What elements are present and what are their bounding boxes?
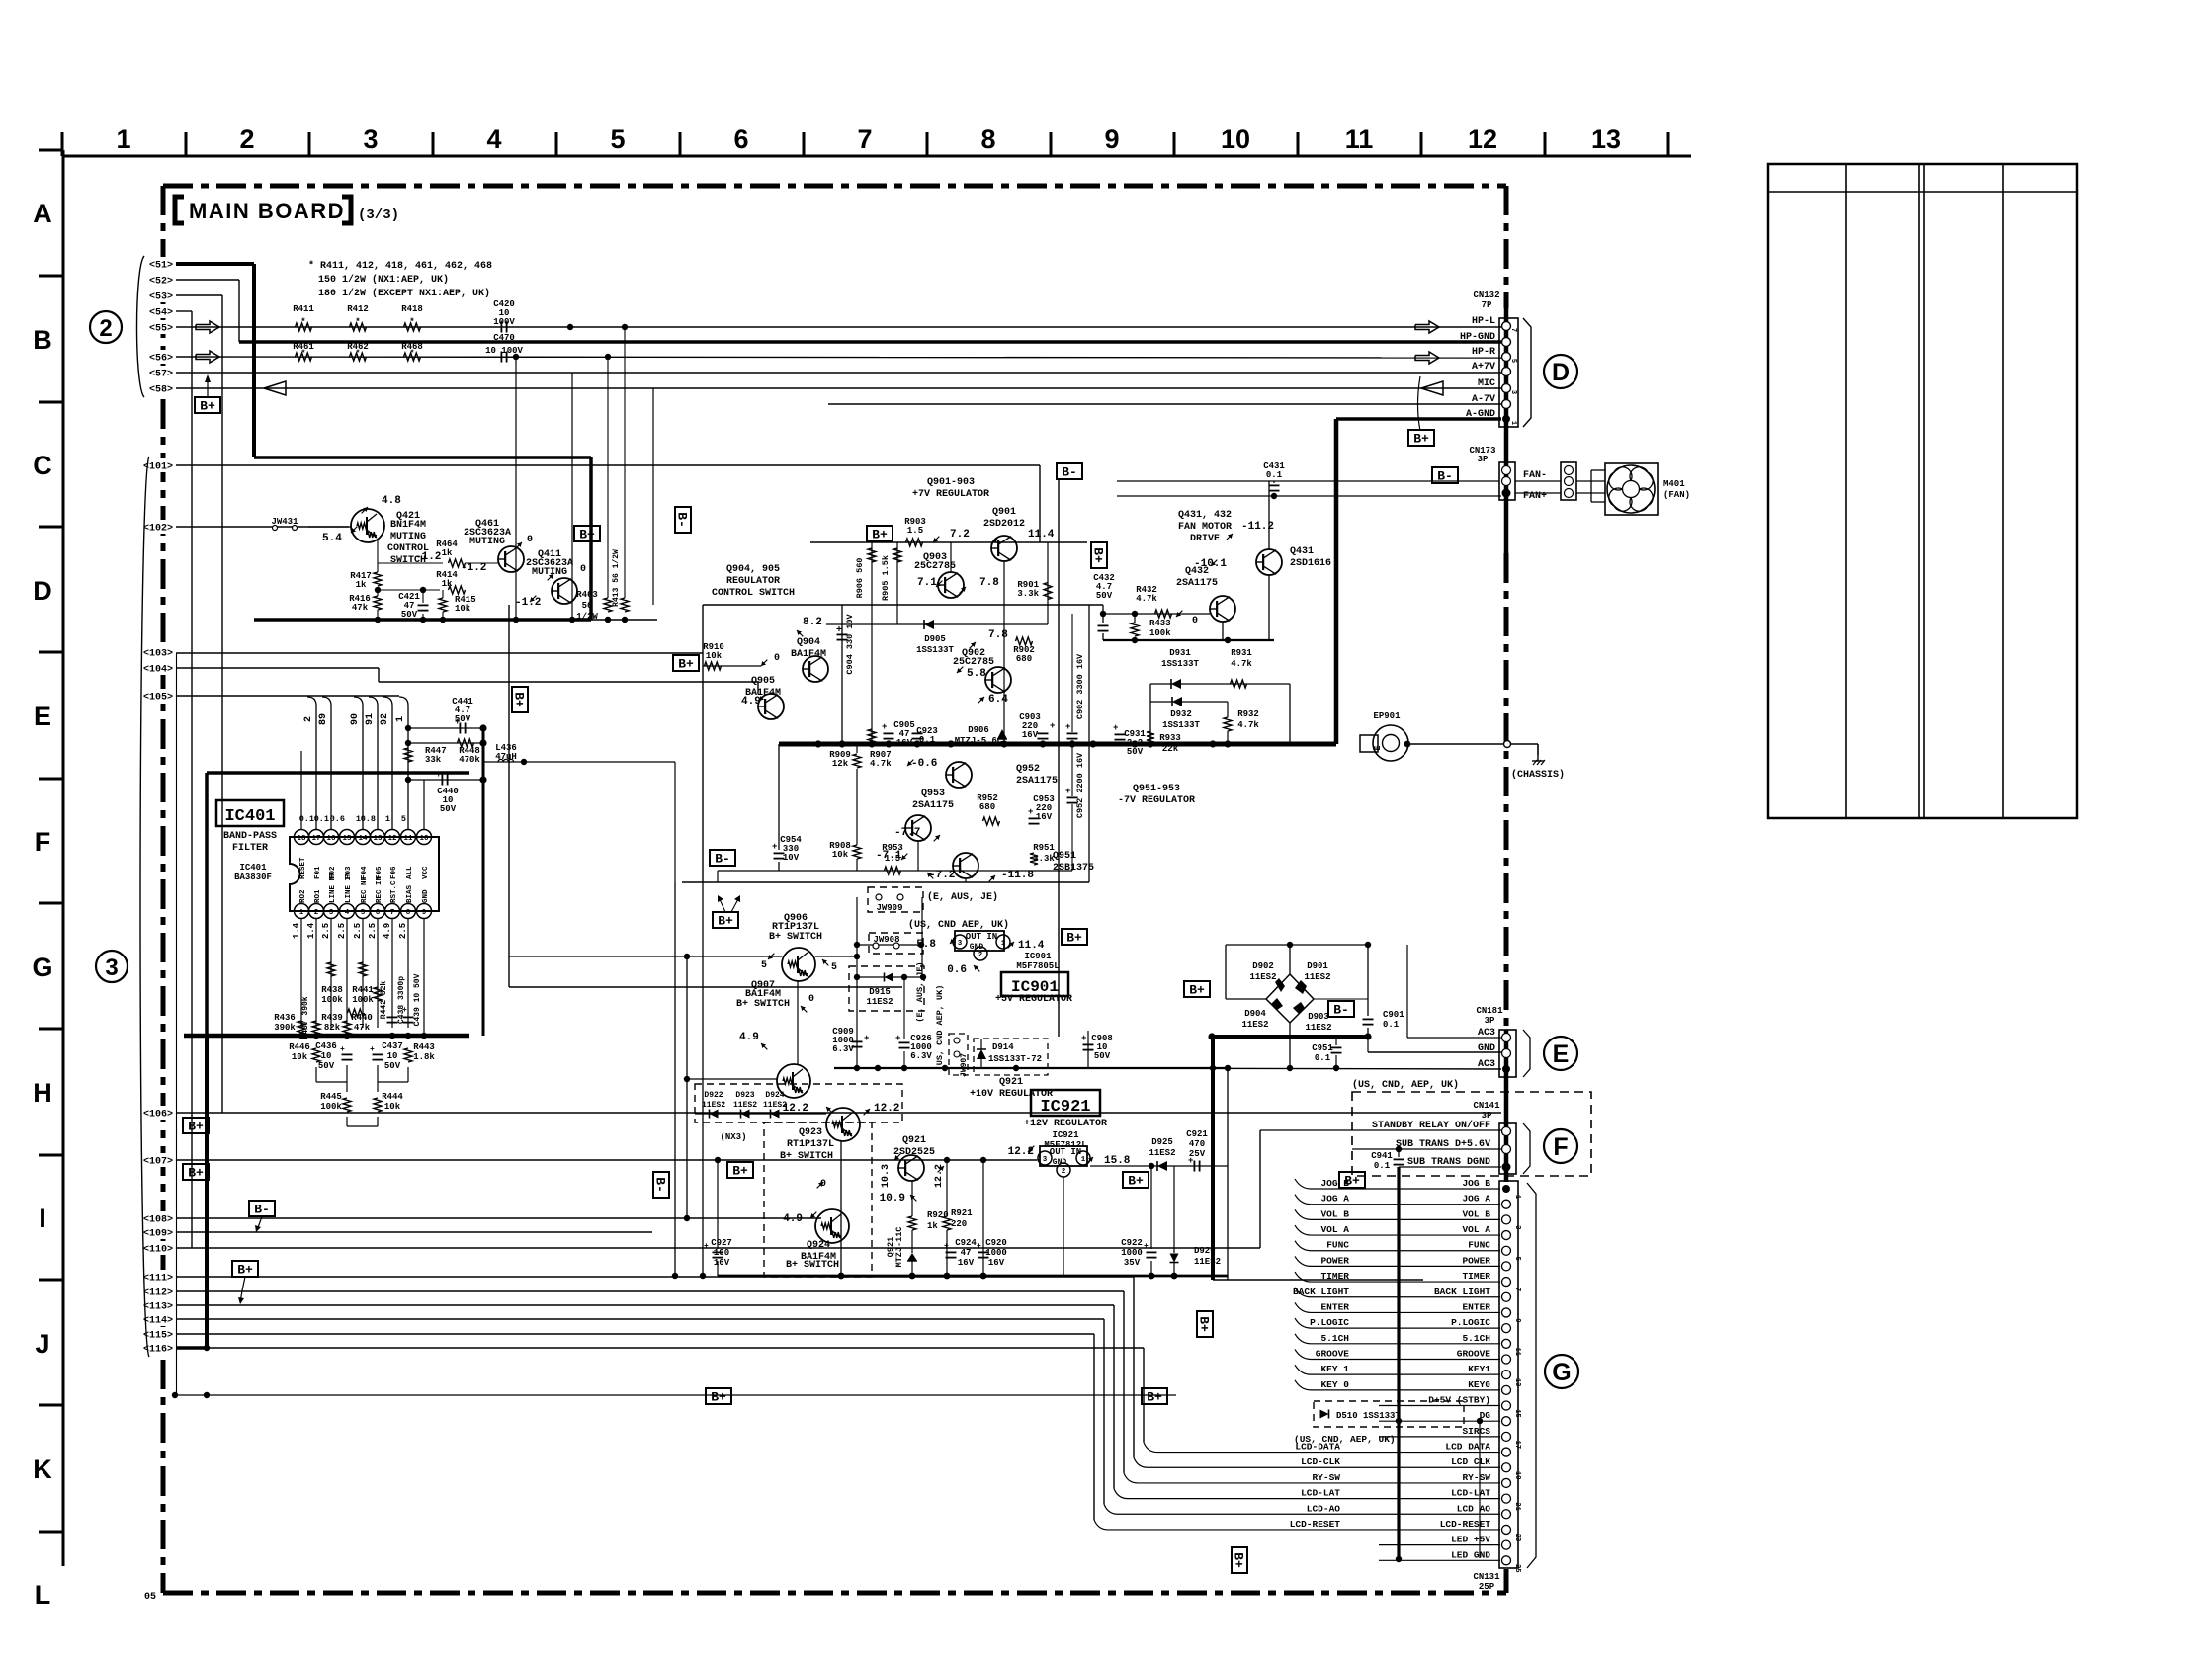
svg-text:50V: 50V — [1127, 747, 1144, 757]
svg-text:B+: B+ — [732, 1164, 748, 1179]
svg-text:D: D — [1552, 359, 1570, 386]
svg-text:IC401: IC401 — [224, 807, 275, 826]
svg-text:25: 25 — [1513, 1564, 1521, 1572]
svg-text:B+: B+ — [512, 692, 527, 707]
svg-text:+: + — [772, 842, 777, 852]
svg-text:LCD-RESET: LCD-RESET — [1290, 1519, 1341, 1530]
svg-text:AC3: AC3 — [1478, 1059, 1495, 1070]
svg-text:+: + — [1065, 787, 1070, 796]
svg-text:4.9: 4.9 — [739, 1032, 759, 1043]
svg-text:B+: B+ — [188, 1166, 204, 1181]
svg-text:B+: B+ — [678, 657, 694, 672]
svg-text:100k: 100k — [352, 995, 374, 1005]
svg-text:C920: C920 — [985, 1238, 1007, 1248]
svg-text:+: + — [1188, 1156, 1193, 1166]
svg-text:56: 56 — [582, 601, 593, 611]
svg-text:LCD-CLK: LCD-CLK — [1301, 1456, 1340, 1467]
svg-text:B+: B+ — [718, 914, 733, 929]
svg-text:6: 6 — [376, 909, 381, 917]
svg-text:<115>: <115> — [143, 1331, 173, 1342]
svg-text:0.1: 0.1 — [314, 814, 329, 824]
svg-text:(FAN): (FAN) — [1663, 490, 1690, 500]
svg-text:LCD AO: LCD AO — [1457, 1503, 1491, 1514]
svg-text:2.5: 2.5 — [368, 923, 378, 939]
svg-text:R921: R921 — [951, 1208, 973, 1218]
svg-text:FAN MOTOR: FAN MOTOR — [1178, 522, 1232, 533]
svg-text:16V: 16V — [1022, 730, 1039, 740]
svg-text:2SA1175: 2SA1175 — [912, 800, 954, 811]
svg-text:10.3: 10.3 — [881, 1164, 892, 1188]
svg-text:12: 12 — [387, 835, 397, 843]
svg-text:89: 89 — [318, 713, 329, 725]
svg-text:B: B — [33, 325, 52, 355]
svg-text:CONTROL SWITCH: CONTROL SWITCH — [712, 588, 795, 599]
svg-text:3: 3 — [1043, 1156, 1048, 1164]
svg-text:11ES2: 11ES2 — [1249, 972, 1276, 982]
svg-text:<55>: <55> — [149, 324, 173, 335]
svg-text:(E, AUS, JE): (E, AUS, JE) — [915, 961, 925, 1022]
svg-text:KEY0: KEY0 — [1468, 1379, 1490, 1390]
svg-text:R438: R438 — [321, 985, 343, 995]
svg-text:Q901: Q901 — [992, 507, 1016, 518]
svg-text:0.1: 0.1 — [1266, 470, 1283, 480]
svg-text:B+: B+ — [872, 528, 888, 542]
svg-text:G: G — [32, 953, 52, 982]
svg-text:SIRCS: SIRCS — [1462, 1426, 1490, 1437]
svg-text:HP-L: HP-L — [1472, 316, 1495, 327]
svg-text:0.6: 0.6 — [330, 814, 345, 824]
svg-text:D902: D902 — [1252, 961, 1274, 971]
svg-text:11.4: 11.4 — [1018, 940, 1045, 952]
svg-text:-0.6: -0.6 — [911, 758, 937, 770]
svg-text:<108>: <108> — [143, 1215, 173, 1226]
svg-text:D: D — [33, 576, 52, 606]
svg-text:C437: C437 — [382, 1041, 403, 1051]
svg-text:50V: 50V — [384, 1061, 401, 1071]
svg-text:JOG A: JOG A — [1462, 1194, 1490, 1205]
svg-text:+: + — [1050, 721, 1055, 731]
svg-text:4.7k: 4.7k — [1231, 659, 1252, 669]
svg-text:LED GND: LED GND — [1451, 1549, 1490, 1560]
svg-text:P.LOGIC: P.LOGIC — [1310, 1317, 1349, 1328]
svg-text:Q921: Q921 — [999, 1077, 1023, 1088]
svg-text:10: 10 — [387, 1051, 398, 1061]
svg-text:4.7k: 4.7k — [1136, 594, 1157, 604]
svg-text:FUNC: FUNC — [1468, 1240, 1490, 1251]
svg-text:50V: 50V — [318, 1061, 335, 1071]
svg-text:LINE NF: LINE NF — [329, 872, 337, 903]
svg-text:+: + — [977, 1242, 981, 1251]
svg-text:+: + — [882, 722, 887, 732]
svg-text:B+: B+ — [579, 528, 595, 542]
svg-text:1: 1 — [1081, 1156, 1086, 1164]
svg-text:1: 1 — [1001, 940, 1006, 948]
svg-text:F06: F06 — [390, 866, 398, 879]
svg-text:<113>: <113> — [143, 1302, 173, 1313]
svg-text:DRIVE: DRIVE — [1190, 534, 1220, 544]
svg-text:90: 90 — [350, 713, 361, 725]
svg-text:9: 9 — [1513, 1318, 1521, 1322]
svg-text:7.2: 7.2 — [950, 529, 970, 540]
svg-text:R418: R418 — [401, 304, 423, 314]
svg-text:LCD-RESET: LCD-RESET — [1440, 1519, 1491, 1530]
svg-text:JW908: JW908 — [873, 935, 899, 945]
svg-text:<51>: <51> — [149, 261, 173, 272]
svg-text:4.8: 4.8 — [382, 495, 401, 507]
svg-text:Q953: Q953 — [921, 789, 945, 799]
svg-text:JOG B: JOG B — [1462, 1178, 1490, 1189]
svg-text:C924: C924 — [955, 1238, 977, 1248]
svg-text:BAND-PASS: BAND-PASS — [223, 831, 277, 842]
svg-text:-7V REGULATOR: -7V REGULATOR — [1118, 795, 1195, 806]
svg-text:2: 2 — [99, 315, 112, 342]
svg-text:VOL B: VOL B — [1320, 1208, 1349, 1219]
svg-text:MTZJ-11C: MTZJ-11C — [894, 1227, 904, 1268]
svg-text:GROOVE: GROOVE — [1316, 1348, 1350, 1359]
svg-text:11: 11 — [1345, 125, 1374, 154]
svg-text:3: 3 — [958, 940, 963, 948]
svg-text:E: E — [1553, 1040, 1570, 1068]
svg-text:16V: 16V — [714, 1258, 730, 1268]
svg-text:<105>: <105> — [143, 693, 173, 704]
svg-text:1: 1 — [395, 716, 406, 722]
svg-text:BA1F4M: BA1F4M — [791, 649, 826, 660]
svg-text:2.5: 2.5 — [321, 923, 331, 939]
svg-text:R446: R446 — [289, 1042, 310, 1052]
svg-text:BACK LIGHT: BACK LIGHT — [1293, 1287, 1349, 1297]
svg-text:180 1/2W (EXCEPT NX1:AEP, UK): 180 1/2W (EXCEPT NX1:AEP, UK) — [318, 288, 490, 299]
svg-text:1.4: 1.4 — [292, 922, 301, 939]
svg-text:VOL B: VOL B — [1462, 1208, 1490, 1219]
svg-text:CN181: CN181 — [1476, 1006, 1503, 1016]
svg-text:<111>: <111> — [143, 1274, 173, 1285]
svg-text:Q431, 432: Q431, 432 — [1178, 510, 1232, 521]
svg-text:35V: 35V — [1124, 1258, 1141, 1268]
svg-text:47k: 47k — [352, 603, 369, 613]
svg-text:D923: D923 — [735, 1091, 754, 1100]
svg-text:B-: B- — [653, 1177, 668, 1193]
svg-text:GND: GND — [422, 889, 430, 903]
svg-text:CN132: CN132 — [1473, 291, 1499, 300]
svg-text:5.8: 5.8 — [916, 939, 936, 951]
svg-text:12.2: 12.2 — [783, 1103, 808, 1115]
svg-text:19: 19 — [1513, 1471, 1521, 1479]
svg-text:5: 5 — [761, 960, 767, 971]
svg-text:D932: D932 — [1170, 709, 1192, 719]
svg-text:F01: F01 — [314, 866, 322, 879]
svg-text:LCD-LAT: LCD-LAT — [1451, 1488, 1490, 1499]
svg-text:ENTER: ENTER — [1462, 1301, 1490, 1312]
svg-text:12k: 12k — [832, 759, 849, 769]
svg-text:5: 5 — [610, 125, 625, 154]
svg-text:100k: 100k — [320, 1102, 342, 1112]
svg-text:4: 4 — [486, 125, 501, 154]
svg-text:R413 56 1/2W: R413 56 1/2W — [612, 549, 621, 607]
svg-text:H: H — [33, 1078, 52, 1108]
svg-text:B+: B+ — [1128, 1174, 1144, 1189]
svg-text:16V: 16V — [988, 1258, 1005, 1268]
svg-text:4.7k: 4.7k — [1237, 720, 1259, 730]
svg-text:3P: 3P — [1482, 1111, 1492, 1121]
svg-text:D915: D915 — [869, 987, 891, 997]
svg-text:+: + — [436, 770, 441, 780]
svg-text:4.9: 4.9 — [741, 696, 761, 707]
svg-text:<103>: <103> — [143, 649, 173, 660]
svg-text:LINE IN: LINE IN — [345, 872, 353, 903]
svg-text:15.8: 15.8 — [1104, 1155, 1131, 1167]
svg-text:17: 17 — [311, 835, 320, 843]
svg-text:23: 23 — [1513, 1534, 1521, 1541]
svg-text:M5F7805L: M5F7805L — [1016, 961, 1059, 971]
svg-text:+: + — [864, 1034, 869, 1043]
svg-text:1SS133T: 1SS133T — [916, 645, 954, 655]
svg-text:IC921: IC921 — [1052, 1130, 1079, 1140]
svg-text:1: 1 — [1513, 1195, 1521, 1199]
svg-text:-7.7: -7.7 — [894, 827, 920, 839]
svg-text:16V: 16V — [1036, 812, 1053, 822]
svg-text:13: 13 — [1513, 1378, 1521, 1386]
svg-text:<109>: <109> — [143, 1229, 173, 1240]
svg-text:50V: 50V — [1094, 1051, 1111, 1061]
svg-text:<104>: <104> — [143, 665, 173, 676]
svg-text:<110>: <110> — [143, 1245, 173, 1256]
svg-text:2SD2012: 2SD2012 — [983, 519, 1025, 530]
svg-text:BACK LIGHT: BACK LIGHT — [1434, 1287, 1490, 1297]
svg-text:GND: GND — [970, 943, 984, 952]
svg-text:R437 390k: R437 390k — [301, 996, 310, 1039]
svg-text:10.9: 10.9 — [880, 1193, 905, 1205]
svg-text:R951: R951 — [1033, 843, 1055, 853]
svg-text:100k: 100k — [321, 995, 343, 1005]
svg-text:1k: 1k — [927, 1221, 938, 1231]
svg-text:VOL A: VOL A — [1320, 1224, 1349, 1235]
svg-text:B-: B- — [1062, 465, 1077, 480]
svg-text:D905: D905 — [924, 634, 946, 644]
svg-text:Q921: Q921 — [902, 1135, 926, 1146]
svg-text:Q952: Q952 — [1016, 764, 1040, 775]
svg-text:7: 7 — [390, 909, 395, 917]
svg-text:CN131: CN131 — [1473, 1572, 1500, 1582]
svg-text:M401: M401 — [1663, 479, 1685, 489]
svg-text:C470: C470 — [493, 333, 515, 343]
svg-text:2SA1175: 2SA1175 — [1016, 776, 1058, 787]
svg-text:<56>: <56> — [149, 354, 173, 365]
svg-text:+: + — [1081, 1034, 1086, 1043]
svg-text:K: K — [33, 1454, 52, 1484]
svg-text:D925: D925 — [1151, 1137, 1173, 1147]
svg-text:B+: B+ — [200, 399, 215, 414]
svg-text:POWER: POWER — [1320, 1255, 1349, 1266]
svg-text:2.5: 2.5 — [353, 923, 363, 939]
svg-text:390k: 390k — [274, 1023, 296, 1033]
svg-text:0: 0 — [527, 535, 533, 545]
svg-text:3: 3 — [329, 909, 334, 917]
svg-text:RT1P137L: RT1P137L — [787, 1139, 834, 1150]
svg-text:C921: C921 — [1186, 1129, 1208, 1139]
svg-text:(NX3): (NX3) — [720, 1132, 746, 1142]
svg-text:2.5: 2.5 — [398, 923, 408, 939]
svg-text:1: 1 — [1509, 421, 1517, 425]
svg-text:C951: C951 — [1312, 1043, 1333, 1053]
svg-text:1: 1 — [385, 814, 390, 824]
svg-text:G: G — [1552, 1359, 1571, 1386]
svg-text:MUTING: MUTING — [469, 537, 505, 547]
svg-text:<54>: <54> — [149, 308, 173, 319]
svg-text:LCD CLK: LCD CLK — [1451, 1456, 1490, 1467]
svg-text:<102>: <102> — [143, 524, 173, 535]
svg-text:B+: B+ — [1147, 1390, 1162, 1405]
svg-text:5.1CH: 5.1CH — [1462, 1333, 1490, 1344]
svg-text:11ES2: 11ES2 — [702, 1101, 725, 1110]
svg-text:+: + — [340, 1045, 345, 1054]
svg-text:10k: 10k — [292, 1052, 308, 1062]
svg-text:Q904: Q904 — [797, 637, 820, 648]
svg-text:11ES2: 11ES2 — [1305, 1023, 1331, 1033]
svg-text:1.8k: 1.8k — [413, 1052, 435, 1062]
svg-text:0: 0 — [774, 653, 780, 664]
svg-text:470: 470 — [1189, 1139, 1205, 1149]
svg-text:<52>: <52> — [149, 277, 173, 288]
svg-text:33k: 33k — [425, 755, 442, 765]
svg-text:LED +5V: LED +5V — [1451, 1535, 1490, 1545]
svg-text:2SA1175: 2SA1175 — [1176, 578, 1218, 589]
svg-text:7: 7 — [1509, 328, 1517, 332]
svg-text:HP-R: HP-R — [1472, 347, 1495, 358]
svg-text:+: + — [1028, 807, 1033, 817]
svg-text:JOG B: JOG B — [1320, 1178, 1349, 1189]
svg-text:STANDBY RELAY ON/OFF: STANDBY RELAY ON/OFF — [1372, 1120, 1490, 1131]
svg-text:7: 7 — [1513, 1288, 1521, 1291]
svg-text:0: 0 — [808, 994, 814, 1005]
svg-text:3: 3 — [105, 955, 118, 981]
svg-text:Q431: Q431 — [1290, 546, 1314, 557]
svg-text:LCD DATA: LCD DATA — [1445, 1442, 1490, 1453]
svg-text:0.1: 0.1 — [1374, 1161, 1391, 1171]
svg-text:R411: R411 — [293, 304, 314, 314]
svg-text:1.5: 1.5 — [907, 526, 923, 536]
svg-text:Q923: Q923 — [799, 1127, 822, 1138]
svg-text:LCD-AO: LCD-AO — [1307, 1503, 1341, 1514]
svg-text:-1.2: -1.2 — [415, 551, 441, 563]
svg-text:2: 2 — [314, 909, 319, 917]
svg-text:FUNC: FUNC — [1326, 1240, 1349, 1251]
svg-text:5: 5 — [1509, 359, 1517, 363]
svg-text:7.8: 7.8 — [988, 629, 1008, 641]
svg-text:ALL: ALL — [406, 866, 414, 879]
svg-text:+: + — [1144, 1242, 1149, 1251]
svg-text:9: 9 — [422, 909, 427, 917]
svg-text:(3/3): (3/3) — [358, 208, 399, 223]
svg-text:D+5V (STBY): D+5V (STBY) — [1428, 1395, 1490, 1406]
svg-text:Q924: Q924 — [807, 1240, 830, 1251]
svg-text:3: 3 — [1509, 390, 1517, 394]
svg-text:16: 16 — [326, 835, 336, 843]
svg-text:220: 220 — [951, 1219, 967, 1229]
svg-text:(US, CND AEP, UK): (US, CND AEP, UK) — [908, 919, 1009, 931]
svg-text:R905 1.5k: R905 1.5k — [881, 555, 891, 601]
svg-text:FAN-: FAN- — [1523, 470, 1547, 481]
svg-text:VOL A: VOL A — [1462, 1224, 1490, 1235]
svg-text:<106>: <106> — [143, 1110, 173, 1121]
svg-text:FILTER: FILTER — [232, 843, 268, 854]
svg-text:1SS133T-72: 1SS133T-72 — [988, 1054, 1042, 1064]
svg-text:1: 1 — [299, 909, 304, 917]
svg-text:-7.2: -7.2 — [929, 870, 955, 881]
svg-text:B+: B+ — [1189, 983, 1205, 998]
svg-text:1SS133T: 1SS133T — [1161, 659, 1199, 669]
svg-text:7P: 7P — [1482, 300, 1492, 310]
svg-text:C952 2200 16V: C952 2200 16V — [1075, 752, 1085, 818]
svg-text:C: C — [33, 451, 52, 480]
svg-text:47k: 47k — [354, 1023, 371, 1033]
svg-text:B-: B- — [254, 1203, 270, 1217]
svg-text:1000: 1000 — [1121, 1248, 1143, 1258]
svg-text:+: + — [704, 1242, 709, 1251]
svg-text:15: 15 — [1513, 1409, 1521, 1417]
svg-text:4.7k: 4.7k — [870, 759, 892, 769]
svg-text:10k: 10k — [706, 651, 723, 661]
svg-text:D510 1SS133T: D510 1SS133T — [1336, 1411, 1401, 1421]
svg-text:RST.C: RST.C — [390, 880, 398, 903]
svg-text:-1.2: -1.2 — [515, 597, 541, 609]
svg-text:IC401: IC401 — [239, 863, 267, 873]
svg-text:B-: B- — [1333, 1003, 1349, 1018]
svg-text:1.5: 1.5 — [885, 854, 900, 864]
svg-text:IC901: IC901 — [1024, 952, 1052, 961]
svg-text:KEY 0: KEY 0 — [1320, 1379, 1349, 1390]
svg-text:7.1: 7.1 — [917, 577, 937, 589]
svg-text:5.1CH: 5.1CH — [1320, 1333, 1349, 1344]
svg-text:* R411, 412, 418, 461, 462, 46: * R411, 412, 418, 461, 462, 468 — [308, 260, 492, 272]
svg-text:2SB1375: 2SB1375 — [1053, 863, 1094, 873]
svg-text:1SS133T: 1SS133T — [1162, 720, 1200, 730]
svg-text:<107>: <107> — [143, 1157, 173, 1168]
svg-text:2: 2 — [1062, 1168, 1066, 1176]
svg-text:R445: R445 — [320, 1092, 342, 1102]
svg-text:CN141: CN141 — [1473, 1101, 1500, 1111]
svg-text:6.3V: 6.3V — [832, 1044, 854, 1054]
svg-text:(US, CND AEP, UK): (US, CND AEP, UK) — [935, 985, 945, 1071]
svg-text:14: 14 — [358, 835, 368, 843]
svg-text:10k: 10k — [384, 1102, 401, 1112]
svg-text:12.2: 12.2 — [874, 1103, 899, 1115]
svg-text:2: 2 — [239, 125, 254, 154]
svg-text:B+ SWITCH: B+ SWITCH — [786, 1260, 839, 1271]
svg-text:D904: D904 — [1244, 1009, 1266, 1019]
svg-text:11ES2: 11ES2 — [1194, 1257, 1221, 1267]
svg-text:25C2785: 25C2785 — [914, 561, 956, 572]
svg-text:11ES2: 11ES2 — [866, 997, 893, 1007]
svg-text:C922: C922 — [1121, 1238, 1143, 1248]
svg-text:MUTING: MUTING — [390, 532, 426, 542]
svg-text:6: 6 — [733, 125, 748, 154]
svg-text:(US, CND, AEP, UK): (US, CND, AEP, UK) — [1352, 1079, 1459, 1091]
svg-text:AC3: AC3 — [1478, 1028, 1495, 1039]
svg-text:3: 3 — [1513, 1225, 1521, 1229]
svg-text:C941: C941 — [1371, 1151, 1393, 1161]
svg-text:B+ SWITCH: B+ SWITCH — [769, 932, 822, 943]
svg-text:C902 3300 16V: C902 3300 16V — [1075, 653, 1085, 719]
svg-text:8.2: 8.2 — [803, 617, 822, 628]
svg-text:8: 8 — [980, 125, 995, 154]
svg-text:E: E — [1374, 745, 1383, 750]
svg-text:RY-SW: RY-SW — [1462, 1472, 1490, 1483]
svg-text:+: + — [370, 1045, 375, 1054]
svg-text:GROOVE: GROOVE — [1457, 1348, 1491, 1359]
svg-text:5: 5 — [361, 909, 366, 917]
svg-text:+12V REGULATOR: +12V REGULATOR — [1024, 1119, 1107, 1129]
svg-text:1k: 1k — [442, 548, 453, 558]
